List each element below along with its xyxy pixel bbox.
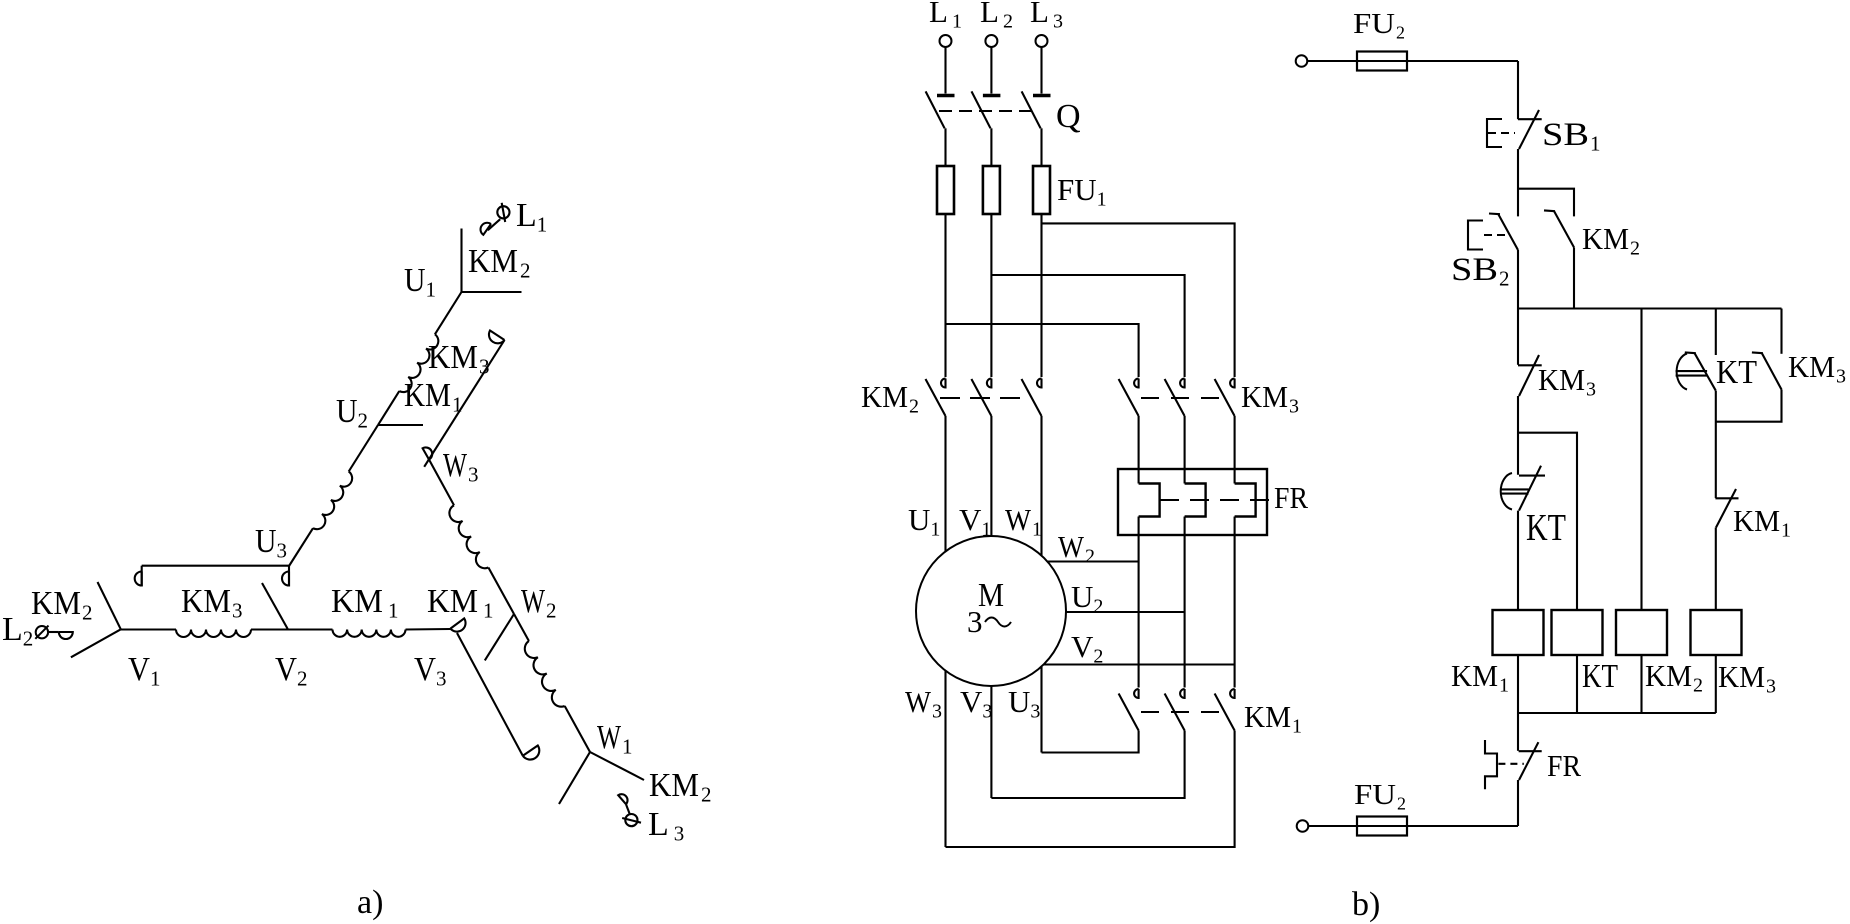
terminal L3 (b) — [1036, 35, 1048, 47]
delay symbol KT 1 — [1501, 473, 1512, 510]
wire U1 vertical — [460, 229, 462, 293]
wire tap W2 — [1047, 560, 1139, 562]
svg-text:FR: FR — [1547, 748, 1581, 783]
svg-text:a): a) — [357, 884, 383, 921]
knife blade KM2 lower — [71, 629, 121, 657]
coil U lower — [313, 472, 352, 530]
wire KM2aux down — [1573, 247, 1575, 308]
wire KM1nc down — [1715, 528, 1717, 611]
motor M circle — [916, 536, 1066, 686]
terminal FU2 top — [1296, 55, 1308, 67]
hook V3 — [450, 618, 465, 631]
wire coil-U2 — [378, 391, 399, 425]
wire V3 down — [990, 686, 992, 798]
contact KM3 pole 2 — [1180, 379, 1185, 388]
knife blade KM1 (V3) — [457, 633, 523, 756]
wire branch KM2aux — [1518, 189, 1574, 217]
wire V2 middle — [251, 628, 333, 630]
switch Q pole 3 — [1033, 94, 1051, 97]
contact KM3 pole 3 — [1230, 379, 1235, 388]
wire coil-U3 — [289, 528, 313, 566]
coil KM1 — [1493, 610, 1544, 655]
wire branch L1-right — [946, 324, 1139, 377]
svg-text:Q: Q — [1056, 98, 1081, 135]
wire coil-W2 — [488, 568, 514, 615]
wire FR down — [1517, 780, 1519, 826]
coil KM2 — [1616, 610, 1667, 655]
hook left end — [141, 566, 143, 587]
svg-text:b): b) — [1352, 886, 1380, 923]
knife blade KM3 (right) — [489, 331, 505, 344]
svg-text:KT: KT — [1716, 354, 1757, 391]
tap W2 lead — [485, 614, 514, 660]
delay symbol KT 2 — [1677, 354, 1687, 390]
contact KM2 aux — [1554, 211, 1574, 247]
terminal L3 — [625, 814, 637, 826]
wire KT1 down — [1517, 511, 1519, 610]
terminal L1 — [497, 206, 509, 218]
contact KM3 NC — [1518, 364, 1542, 366]
wire rail — [1518, 307, 1782, 309]
wire KM3 coil down — [1715, 655, 1717, 713]
terminal L2 (b) — [985, 35, 997, 47]
wire bus-FR — [1517, 713, 1519, 751]
terminal L2 — [36, 626, 48, 638]
svg-text:3: 3 — [967, 604, 983, 639]
contact KM2 pole 1 — [941, 379, 946, 388]
wire branch KT coil — [1518, 433, 1577, 610]
hook W3 — [423, 447, 433, 459]
wire KTnc down — [1715, 391, 1717, 498]
svg-text:KT: KT — [1582, 658, 1618, 695]
linkage KM3 dashed — [1141, 397, 1228, 399]
FR box — [1118, 469, 1267, 535]
fuse FU2 bottom — [1357, 817, 1407, 836]
hook below U3 — [288, 566, 290, 587]
wire rail-KTnc — [1715, 309, 1717, 356]
wire KT coil down — [1576, 655, 1578, 713]
FR heater 3 — [1234, 416, 1236, 484]
fuse FU1 pole 3 — [1033, 166, 1050, 214]
blade SB2 — [1498, 214, 1518, 250]
wire U2-coil — [349, 425, 378, 472]
FR heater 2 — [1184, 416, 1186, 484]
wire U3 down — [1040, 667, 1042, 753]
wire FU2 bottom — [1309, 825, 1519, 827]
contact KM2 pole 2 — [987, 379, 992, 388]
contact KM1 pole 3 — [1230, 689, 1235, 698]
wire FU2 top — [1308, 60, 1519, 62]
wire rail-KM3aux — [1780, 309, 1782, 354]
wire SB1-SB2 — [1517, 149, 1519, 216]
wire U3 to KM1 — [1042, 731, 1139, 753]
wire rail-KM3nc — [1517, 309, 1519, 365]
contact KM1 pole 2 — [1180, 689, 1185, 698]
wire W3-coil — [428, 458, 454, 505]
knife blade KM2 (W1) — [590, 752, 644, 780]
fuse FU1 pole 1 — [937, 166, 954, 214]
svg-text:FR: FR — [1274, 480, 1308, 515]
wire L3 drop — [1040, 47, 1042, 94]
contact KT NC — [1695, 353, 1716, 391]
wire V1-coil — [121, 628, 176, 630]
wire tap U2 — [1066, 611, 1185, 613]
contact KM2 pole 3 — [1037, 379, 1042, 388]
actuator SB2 — [1468, 221, 1483, 250]
wire W3 to KM1 — [946, 731, 1235, 848]
wire coil-W1 — [565, 706, 590, 752]
FR heater 1 — [1138, 416, 1140, 484]
svg-text:KT: KT — [1526, 507, 1566, 549]
switch Q pole 2 — [983, 94, 1001, 97]
wire L1 drop — [944, 47, 946, 94]
blade SB1 — [1519, 110, 1539, 149]
linkage KM1 dashed — [1141, 711, 1228, 713]
linkage KM2 dashed — [940, 397, 1030, 399]
wire bottom bus — [1518, 712, 1716, 714]
wire KM2 coil down — [1640, 655, 1642, 713]
knife blade KM3 (V2) — [262, 583, 288, 630]
knife blade W1 left — [559, 752, 590, 804]
wire tap V2 — [1044, 663, 1235, 665]
wire rail-KM2coil — [1640, 309, 1642, 611]
hook L2 — [59, 632, 73, 639]
wire L2 drop — [990, 47, 992, 94]
wire to SB1 — [1517, 61, 1519, 119]
actuator SB1 — [1487, 119, 1502, 147]
wire V3 end — [406, 628, 451, 631]
coil KM3 — [1691, 610, 1742, 655]
lead L2 — [48, 631, 58, 633]
wire U1-coil — [435, 292, 462, 334]
contact FR NC — [1519, 750, 1542, 752]
wire V1 to motor — [990, 416, 992, 536]
wire W2-coil — [514, 614, 529, 641]
fuse FU1 pole 2 — [983, 166, 1000, 214]
coil W upper — [449, 505, 488, 568]
contact KM3 pole 1 — [1134, 379, 1139, 388]
contact KM1 pole 1 — [1134, 689, 1139, 698]
wire branch L2-right — [991, 275, 1184, 377]
tap U2 tick — [378, 424, 423, 426]
contact KM1 NC — [1715, 497, 1738, 499]
coil V KM1 section — [333, 630, 406, 637]
contact KT delay 1 — [1519, 475, 1545, 477]
wire KM3nc down — [1517, 396, 1519, 475]
contact KM3 aux — [1762, 353, 1782, 389]
lead L3 — [626, 804, 630, 814]
wire U1 to motor — [944, 416, 946, 552]
wire W3 down — [944, 671, 946, 847]
wire KM1 coil down — [1517, 655, 1519, 713]
linkage Q dashed — [939, 110, 1036, 112]
wire KM3aux join — [1716, 390, 1782, 422]
wire branch L3-right — [1042, 223, 1235, 377]
actuator FR — [1485, 740, 1497, 789]
wire V3 to KM1 — [991, 731, 1184, 799]
contact bar SB1 — [1518, 118, 1542, 120]
knife blade KM2 upper — [98, 582, 121, 629]
coil V KM3 section — [176, 630, 251, 638]
wire U3 horizontal — [142, 565, 289, 567]
FR dashed link — [1160, 499, 1270, 501]
coil KT — [1552, 610, 1603, 655]
wire W1 to motor — [1040, 416, 1042, 556]
contact bar KM2 — [462, 291, 522, 293]
switch Q pole 1 — [937, 94, 955, 97]
fuse FU2 top — [1357, 52, 1407, 71]
wire SB2 down — [1517, 250, 1519, 309]
hook and lead at L1 — [488, 219, 500, 230]
coil U upper — [399, 334, 438, 392]
terminal L1 (b) — [940, 35, 952, 47]
coil W lower — [525, 641, 565, 707]
terminal FU2 bottom — [1297, 820, 1309, 832]
